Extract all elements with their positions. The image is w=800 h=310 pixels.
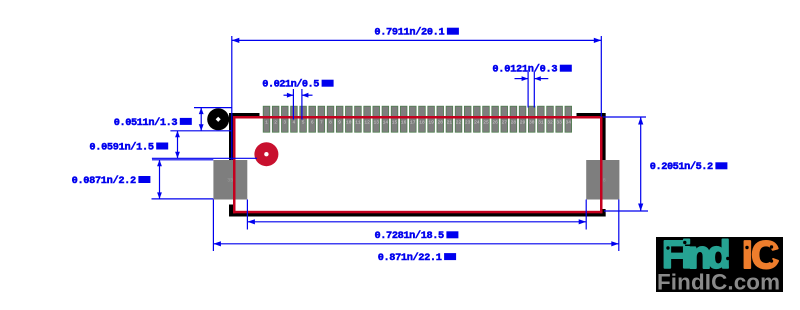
mounting pad P35 (left) (213, 160, 247, 200)
dim 0.5mm arrow left (287, 93, 294, 98)
svg-text:10: 10 (346, 119, 352, 125)
component body outline (black), bottom edge (229, 213, 606, 217)
svg-text:3: 3 (283, 119, 286, 125)
dim 1.3mm arrow top (199, 108, 204, 115)
pin pads 1-34 (0.5mm pitch SMD row) (263, 106, 571, 132)
dim 2.2mm extension line bottom (152, 198, 214, 200)
component body outline (black), top-left stub (229, 113, 260, 117)
svg-text:32: 32 (547, 119, 553, 125)
svg-text:28: 28 (511, 119, 517, 125)
dim 0.5mm extension line left (pad4 center) (292, 89, 294, 120)
dim 22.1mm extension line left (212, 200, 214, 252)
dim 0.3mm arrow left (522, 76, 529, 81)
dim 0.5mm leader left (284, 94, 294, 96)
svg-text:0.7911n/20.1: 0.7911n/20.1 (374, 27, 444, 39)
component body outline (black), right edge upper (602, 113, 606, 160)
dim 18.5mm arrow left (247, 219, 255, 224)
courtyard outline (red), bottom edge (233, 211, 603, 214)
svg-text:31: 31 (538, 119, 544, 125)
dim 5.2mm dimension line (640, 117, 642, 211)
dim 20.1mm dimension line (232, 39, 602, 41)
dim 1.5mm arrow bottom (175, 152, 180, 159)
svg-text:16: 16 (401, 119, 407, 125)
dim 18.5mm arrow right (579, 219, 587, 224)
dim 20.1mm extension line left (231, 36, 233, 160)
dim 22.1mm arrow left (213, 241, 221, 246)
svg-text:5: 5 (302, 119, 305, 125)
svg-text:0.0591n/1.5: 0.0591n/1.5 (89, 141, 154, 153)
svg-text:FindIC.com: FindIC.com (657, 270, 780, 295)
dim 2.2mm arrow top (157, 160, 162, 167)
dim 20.1mm arrow right (594, 38, 602, 43)
svg-text:15: 15 (392, 119, 398, 125)
svg-text:11: 11 (355, 119, 361, 125)
svg-text:18: 18 (419, 119, 425, 125)
dim 22.1mm arrow right (611, 241, 619, 246)
dim 1.5mm dimension line (177, 131, 179, 159)
dim 5.2mm arrow top (638, 117, 643, 125)
svg-text:13: 13 (373, 119, 379, 125)
dim 0.5mm leader right (302, 94, 313, 96)
svg-text:1: 1 (265, 119, 268, 125)
pin pad numbers 1-34 (265, 119, 571, 125)
svg-text:24: 24 (474, 119, 480, 125)
dim 0.3mm leader left (515, 78, 529, 80)
courtyard outline (red), right edge (600, 116, 603, 213)
svg-text:0.0871n/2.2: 0.0871n/2.2 (72, 175, 137, 187)
dim 2.2mm extension line top (152, 159, 213, 161)
component body outline (black), left edge upper (229, 113, 233, 160)
dim 0.3mm extension line left (pad30 left edge) (527, 72, 529, 108)
mounting pad P36 (right) (586, 160, 619, 200)
svg-text:19: 19 (428, 119, 434, 125)
dim 1.3mm arrow bottom (199, 124, 204, 131)
dim 18.5mm dimension line (247, 221, 586, 223)
dim 0.5mm arrow right (302, 93, 309, 98)
svg-text:23: 23 (465, 119, 471, 125)
dim 1.3mm extension line top (194, 107, 232, 109)
dim 0.3mm arrow right (534, 76, 541, 81)
dim 20.1mm arrow left (232, 38, 240, 43)
svg-text:29: 29 (520, 119, 526, 125)
dim 1.3mm extension line bottom (170, 130, 231, 132)
component body outline (black), left edge lower (229, 205, 233, 217)
dim 0.3mm extension line right (pad30 right edge) (533, 72, 535, 108)
svg-text:22: 22 (456, 119, 462, 125)
svg-text:21: 21 (447, 119, 453, 125)
svg-text:8: 8 (329, 119, 332, 125)
courtyard outline (red), top edge (233, 116, 603, 119)
svg-text:0.2051n/5.2: 0.2051n/5.2 (650, 161, 713, 173)
dim 22.1mm dimension line (213, 243, 618, 245)
svg-text:0.021n/0.5: 0.021n/0.5 (262, 79, 319, 91)
svg-text:0.0511n/1.3: 0.0511n/1.3 (114, 117, 178, 129)
svg-text:2: 2 (274, 119, 277, 125)
locating hole H1 (black, pin-1 marker) (207, 108, 229, 130)
svg-text:7: 7 (320, 119, 323, 125)
svg-text:35: 35 (227, 178, 233, 184)
locating hole H2 (red) (254, 142, 278, 166)
component body outline (black), right edge lower (602, 209, 606, 217)
svg-text:27: 27 (502, 119, 508, 125)
svg-text:0.0121n/0.3: 0.0121n/0.3 (492, 64, 557, 76)
component body outline (black), top-right stub (577, 113, 606, 117)
dim 1.5mm extension line bottom (152, 157, 257, 159)
dim 5.2mm extension line bottom (604, 210, 648, 212)
svg-text:26: 26 (492, 119, 498, 125)
svg-text:34: 34 (566, 119, 572, 125)
dim 5.2mm extension line top (603, 116, 646, 118)
dim 5.2mm arrow bottom (638, 204, 643, 212)
dim 20.1mm extension line right (600, 36, 602, 117)
svg-text:4: 4 (293, 119, 296, 125)
svg-text:33: 33 (556, 119, 562, 125)
dim 18.5mm extension line right (585, 200, 587, 230)
svg-text:17: 17 (410, 119, 416, 125)
dim 18.5mm extension line left (246, 200, 248, 230)
svg-text:6: 6 (311, 119, 314, 125)
dim 1.5mm arrow top (175, 131, 180, 138)
svg-text:9: 9 (338, 119, 341, 125)
dim 1.3mm dimension line (200, 108, 202, 131)
svg-text:0.7281n/18.5: 0.7281n/18.5 (375, 230, 445, 242)
svg-text:25: 25 (483, 119, 489, 125)
dim 22.1mm extension line right (618, 200, 620, 252)
svg-text:0.871n/22.1: 0.871n/22.1 (378, 252, 442, 264)
courtyard outline (red), left edge (233, 116, 236, 213)
dim 2.2mm arrow bottom (157, 192, 162, 199)
dim 0.5mm extension line right (pad5 center) (301, 89, 303, 120)
dim 2.2mm dimension line (159, 160, 161, 199)
FindIC logo (656, 234, 783, 295)
svg-text:30: 30 (529, 119, 535, 125)
svg-text:12: 12 (364, 119, 370, 125)
svg-text:20: 20 (437, 119, 443, 125)
svg-text:14: 14 (383, 119, 389, 125)
dim 0.3mm leader right (534, 78, 548, 80)
